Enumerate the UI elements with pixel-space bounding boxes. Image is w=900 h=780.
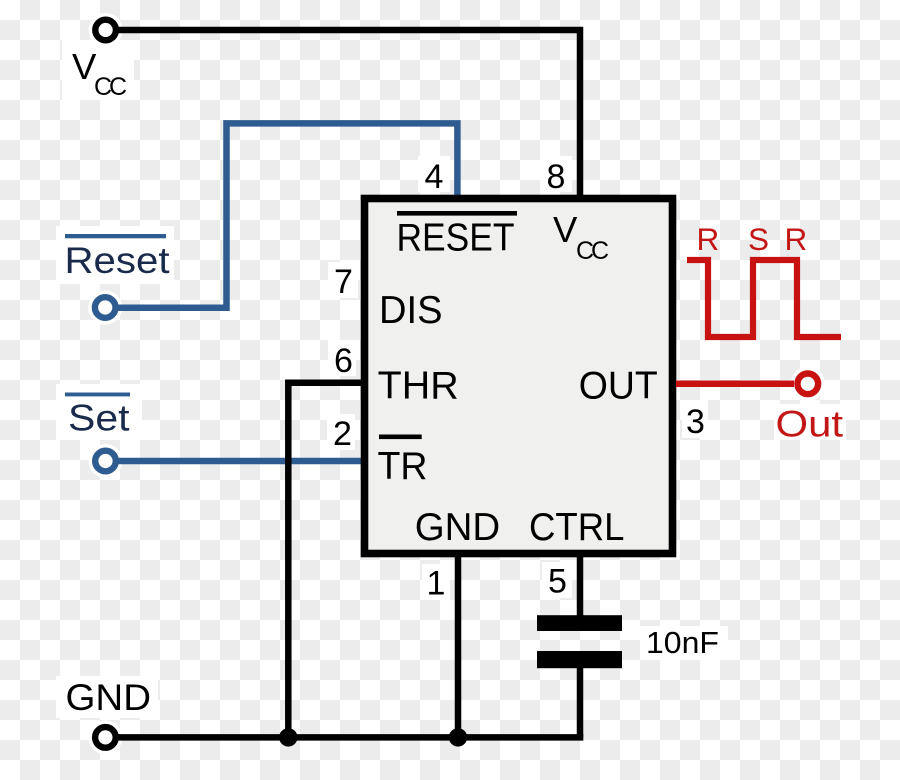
svg-text:7: 7	[334, 263, 353, 301]
wire Reset net to pin 4 (blue)	[118, 123, 457, 307]
label Reset overline	[65, 234, 166, 238]
svg-text:CTRL: CTRL	[529, 506, 625, 549]
wire THR pin 6 branch to ground	[288, 383, 361, 738]
svg-text:10nF: 10nF	[646, 625, 719, 660]
label Set overline	[65, 393, 130, 397]
svg-text:TR: TR	[378, 445, 428, 488]
svg-text:5: 5	[548, 563, 567, 601]
wire ground rail	[118, 734, 583, 741]
junction dot pin 1	[449, 728, 467, 746]
svg-text:RESET: RESET	[397, 217, 515, 260]
svg-text:CC: CC	[94, 73, 127, 101]
svg-text:OUT: OUT	[579, 365, 658, 408]
label TR overline	[379, 435, 422, 440]
label RESET overline	[397, 211, 517, 216]
terminal Set	[95, 451, 116, 472]
svg-text:THR: THR	[378, 365, 459, 408]
svg-text:2: 2	[333, 415, 352, 453]
waveform R-S-R trace	[687, 260, 841, 337]
capacitor C1 bottom plate	[537, 651, 622, 668]
terminal Vcc	[95, 20, 116, 41]
svg-text:Reset: Reset	[65, 240, 171, 281]
svg-text:R: R	[785, 221, 808, 257]
svg-text:Set: Set	[68, 398, 130, 439]
svg-text:DIS: DIS	[379, 289, 443, 332]
wire pin 1 to ground rail	[455, 557, 462, 737]
label halo boxes	[56, 40, 846, 718]
wire Vcc top rail with pin 8 drop	[118, 30, 580, 199]
terminal GND	[95, 727, 116, 748]
svg-text:CC: CC	[576, 237, 609, 265]
wire Set net to pin 2 (blue)	[118, 458, 361, 465]
svg-text:Out: Out	[776, 404, 844, 445]
junction dot THR branch	[279, 728, 297, 746]
svg-text:4: 4	[425, 158, 444, 196]
capacitor C1 top plate	[537, 615, 622, 631]
svg-text:GND: GND	[66, 677, 152, 718]
svg-text:GND: GND	[415, 506, 501, 549]
svg-text:6: 6	[334, 342, 353, 380]
wire OUT pin 3 (red)	[676, 380, 794, 387]
svg-text:V: V	[553, 209, 578, 250]
svg-text:3: 3	[686, 403, 705, 441]
terminal Reset	[95, 297, 116, 318]
svg-text:8: 8	[547, 158, 566, 196]
svg-text:R: R	[697, 221, 720, 257]
wire pin 5 to capacitor	[577, 557, 584, 616]
svg-text:1: 1	[427, 565, 446, 603]
terminal Out	[798, 374, 819, 395]
wire capacitor to ground rail	[577, 667, 584, 737]
svg-text:S: S	[748, 221, 769, 257]
IC U1 555 timer body	[365, 199, 673, 554]
terminal halos	[89, 13, 123, 47]
